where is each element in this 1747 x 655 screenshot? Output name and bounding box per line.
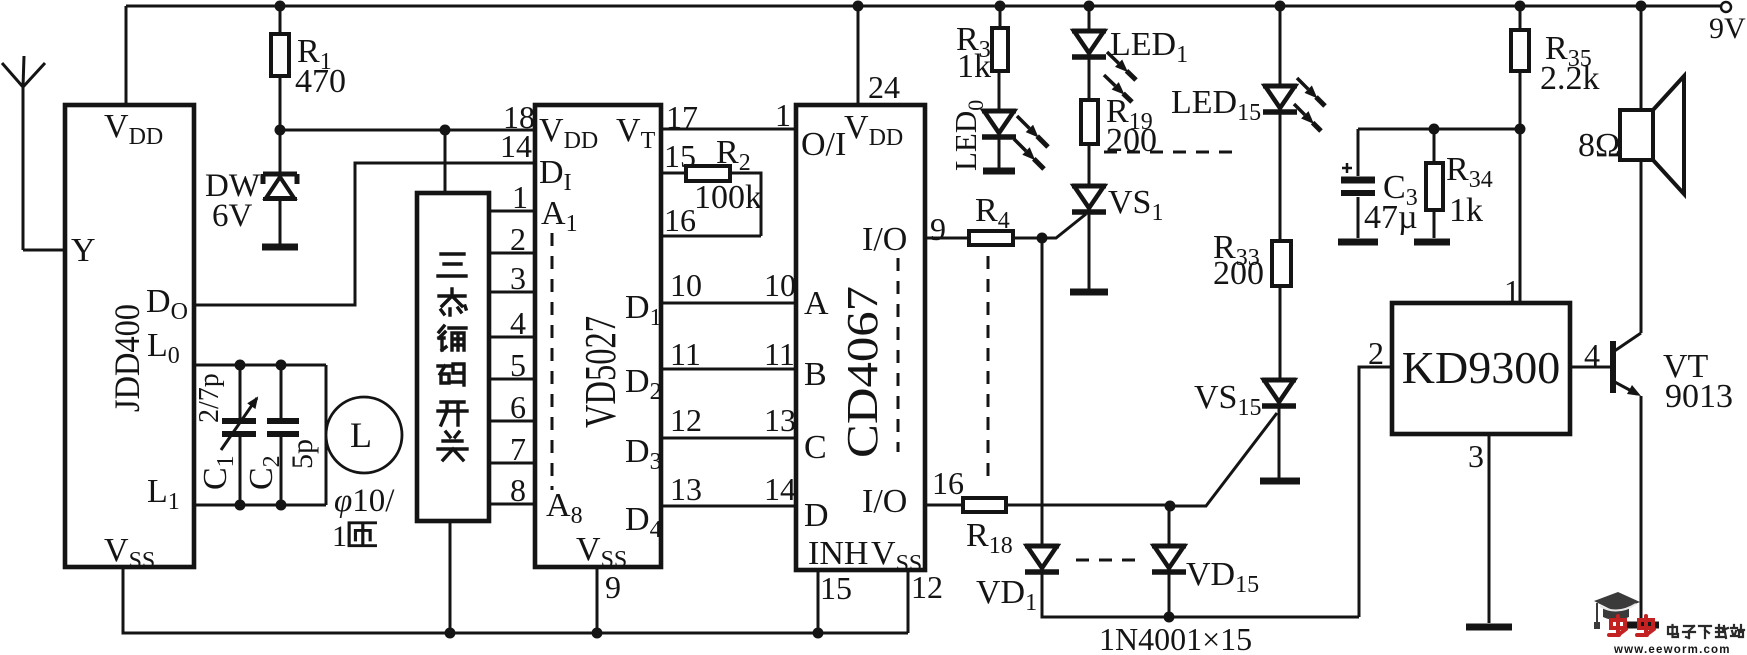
svg-text:R4: R4 bbox=[975, 192, 1010, 234]
svg-text:JDD400: JDD400 bbox=[107, 304, 147, 412]
svg-text:Y: Y bbox=[71, 232, 96, 269]
svg-text:15: 15 bbox=[664, 138, 696, 174]
svg-text:VS15: VS15 bbox=[1194, 379, 1261, 421]
svg-text:2/7p: 2/7p bbox=[194, 373, 225, 423]
svg-text:10: 10 bbox=[764, 267, 796, 303]
svg-text:L0: L0 bbox=[147, 327, 180, 369]
svg-text:200: 200 bbox=[1106, 122, 1157, 159]
svg-text:24: 24 bbox=[868, 69, 900, 105]
svg-text:R34: R34 bbox=[1446, 151, 1493, 193]
svg-text:100k: 100k bbox=[694, 179, 762, 216]
svg-text:200: 200 bbox=[1213, 255, 1264, 292]
svg-text:LED0: LED0 bbox=[948, 100, 988, 171]
svg-text:15: 15 bbox=[820, 570, 852, 606]
svg-text:DO: DO bbox=[146, 283, 188, 325]
svg-text:13: 13 bbox=[764, 402, 796, 438]
svg-text:KD9300: KD9300 bbox=[1402, 342, 1560, 393]
svg-text:C: C bbox=[804, 429, 827, 466]
svg-text:2: 2 bbox=[1368, 335, 1384, 371]
svg-text:12: 12 bbox=[670, 402, 702, 438]
svg-text:6V: 6V bbox=[212, 198, 253, 234]
svg-text:D1: D1 bbox=[625, 289, 662, 331]
svg-text:I/O: I/O bbox=[862, 221, 907, 258]
svg-text:13: 13 bbox=[670, 471, 702, 507]
svg-text:8Ω: 8Ω bbox=[1578, 127, 1620, 164]
svg-text:6: 6 bbox=[510, 389, 526, 425]
svg-text:R18: R18 bbox=[966, 517, 1013, 559]
svg-text:A8: A8 bbox=[546, 487, 583, 529]
svg-text:1: 1 bbox=[1504, 273, 1520, 309]
svg-text:11: 11 bbox=[764, 336, 795, 372]
svg-text:1: 1 bbox=[512, 179, 528, 215]
svg-text:CD4067: CD4067 bbox=[838, 286, 887, 458]
svg-text:VD15: VD15 bbox=[1186, 556, 1259, 598]
svg-text:O/I: O/I bbox=[801, 126, 846, 163]
svg-text:1k: 1k bbox=[1449, 192, 1483, 229]
svg-text:9V: 9V bbox=[1709, 12, 1746, 45]
svg-text:I/O: I/O bbox=[862, 483, 907, 520]
svg-text:LED15: LED15 bbox=[1171, 84, 1261, 126]
svg-text:5: 5 bbox=[510, 347, 526, 383]
svg-text:VSS: VSS bbox=[576, 531, 627, 573]
svg-text:14: 14 bbox=[500, 128, 532, 164]
svg-text:3: 3 bbox=[1468, 438, 1484, 474]
svg-text:R2: R2 bbox=[716, 134, 751, 176]
svg-text:9013: 9013 bbox=[1665, 378, 1733, 415]
svg-text:5p: 5p bbox=[286, 439, 319, 469]
svg-text:VD5027: VD5027 bbox=[576, 316, 625, 428]
svg-text:3: 3 bbox=[510, 260, 526, 296]
svg-text:8: 8 bbox=[510, 472, 526, 508]
svg-text:VS1: VS1 bbox=[1108, 184, 1163, 226]
svg-text:1N4001×15: 1N4001×15 bbox=[1099, 621, 1252, 655]
svg-text:16: 16 bbox=[664, 202, 696, 238]
svg-text:D2: D2 bbox=[625, 363, 662, 405]
svg-text:INH: INH bbox=[808, 535, 868, 572]
svg-text:14: 14 bbox=[764, 471, 796, 507]
svg-text:VT: VT bbox=[616, 112, 656, 154]
svg-text:DI: DI bbox=[539, 154, 572, 196]
svg-text:C1: C1 bbox=[197, 455, 239, 490]
svg-text:C2: C2 bbox=[243, 455, 285, 490]
svg-text:LED1: LED1 bbox=[1110, 26, 1188, 68]
svg-text:16: 16 bbox=[932, 465, 964, 501]
svg-text:L: L bbox=[350, 415, 372, 455]
svg-text:B: B bbox=[804, 356, 827, 393]
svg-text:2.2k: 2.2k bbox=[1540, 60, 1600, 97]
svg-text:VD1: VD1 bbox=[976, 574, 1037, 616]
svg-text:D: D bbox=[804, 497, 829, 534]
svg-text:A1: A1 bbox=[541, 195, 578, 237]
svg-text:9: 9 bbox=[605, 569, 621, 605]
svg-text:17: 17 bbox=[666, 99, 698, 135]
svg-text:L1: L1 bbox=[147, 473, 180, 515]
svg-text:VDD: VDD bbox=[539, 112, 598, 154]
svg-text:4: 4 bbox=[1584, 337, 1600, 373]
svg-text:VDD: VDD bbox=[104, 108, 163, 150]
svg-text:D3: D3 bbox=[625, 433, 662, 475]
svg-text:VDD: VDD bbox=[844, 109, 903, 151]
svg-text:47µ: 47µ bbox=[1364, 199, 1418, 236]
svg-text:11: 11 bbox=[670, 336, 701, 372]
svg-text:φ10/: φ10/ bbox=[334, 483, 395, 519]
svg-text:7: 7 bbox=[510, 431, 526, 467]
svg-text:www.eeworm.com: www.eeworm.com bbox=[1613, 644, 1731, 655]
svg-text:D4: D4 bbox=[625, 501, 662, 543]
svg-text:9: 9 bbox=[930, 211, 946, 247]
svg-text:A: A bbox=[804, 285, 829, 322]
svg-text:2: 2 bbox=[510, 221, 526, 257]
svg-text:10: 10 bbox=[670, 267, 702, 303]
svg-text:470: 470 bbox=[295, 63, 346, 100]
svg-text:12: 12 bbox=[911, 569, 943, 605]
svg-text:4: 4 bbox=[510, 305, 526, 341]
svg-text:1k: 1k bbox=[957, 48, 991, 85]
svg-text:VSS: VSS bbox=[104, 532, 155, 574]
svg-text:1: 1 bbox=[775, 97, 791, 133]
svg-text:1: 1 bbox=[332, 520, 347, 553]
